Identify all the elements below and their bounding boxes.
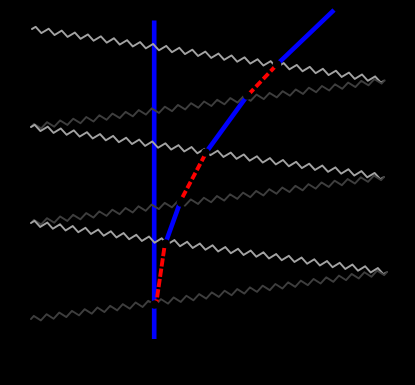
worldline observer B blue segment 1 [165, 200, 181, 245]
dark wave 1 (first return light signal) [31, 79, 385, 128]
event marker disc V5 (light wave 1 passes observer B) [273, 60, 282, 69]
event marker disc V2 (dark wave 2 passes observer B) [177, 198, 186, 207]
light wave 3 (third outbound light signal) [31, 221, 387, 274]
light wave 1 (first outbound light signal) [32, 27, 385, 83]
light wave 2 (second outbound light signal) [31, 125, 384, 179]
event marker disc V4 (dark wave 1 passes observer B) [243, 91, 252, 100]
event marker disc V1 (light wave 3 passes observer B) [161, 239, 170, 248]
worldline observer B red dashed segment 1 (bottom) [156, 248, 164, 305]
dark wave 3 (third return light signal) [31, 271, 387, 321]
worldline observer B red dashed segment 3 (top) [247, 64, 278, 97]
worldline observer A (inertial, vertical blue line) [152, 21, 157, 340]
event marker disc V0 (separation event on worldline A) [150, 300, 159, 309]
worldline observer B blue segment 3 [278, 10, 334, 64]
event marker disc V3 (light wave 2 passes observer B) [201, 148, 210, 157]
worldline observer B blue segment 2 [207, 96, 247, 151]
dark wave 2 (second return light signal) [31, 176, 384, 225]
worldline observer B red dashed segment 2 (middle) [181, 155, 205, 200]
